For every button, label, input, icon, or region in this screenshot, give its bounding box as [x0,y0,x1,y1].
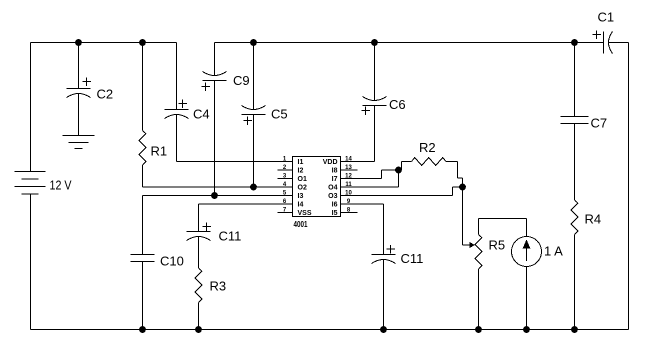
svg-text:C4: C4 [193,107,210,122]
svg-text:R1: R1 [151,144,168,159]
svg-text:C11: C11 [401,251,424,266]
svg-text:C5: C5 [271,107,288,122]
svg-text:VSS: VSS [298,210,312,217]
svg-text:C11: C11 [219,229,242,244]
svg-text:I1: I1 [298,159,304,166]
svg-text:C2: C2 [97,87,114,102]
svg-text:14: 14 [345,157,352,163]
svg-text:O3: O3 [328,193,337,200]
svg-text:VDD: VDD [323,159,338,166]
svg-text:C1: C1 [598,10,615,25]
svg-text:12 V: 12 V [50,178,72,193]
svg-text:R3: R3 [210,279,227,294]
svg-text:O2: O2 [298,185,307,192]
svg-text:O1: O1 [298,176,307,183]
svg-text:O4: O4 [328,185,337,192]
svg-text:I4: I4 [298,202,304,209]
svg-text:I5: I5 [332,210,338,217]
svg-text:R2: R2 [419,140,436,155]
svg-text:I7: I7 [332,176,338,183]
svg-text:4001: 4001 [294,219,308,229]
svg-text:I8: I8 [332,168,338,175]
svg-text:C9: C9 [233,73,250,88]
svg-text:I3: I3 [298,193,304,200]
svg-text:R4: R4 [585,212,602,227]
svg-text:C6: C6 [389,97,406,112]
svg-text:C10: C10 [160,254,184,269]
svg-text:I2: I2 [298,168,304,175]
svg-text:C7: C7 [591,116,608,131]
svg-text:I6: I6 [332,202,338,209]
svg-text:R5: R5 [489,238,506,253]
svg-text:1 A: 1 A [544,244,563,259]
